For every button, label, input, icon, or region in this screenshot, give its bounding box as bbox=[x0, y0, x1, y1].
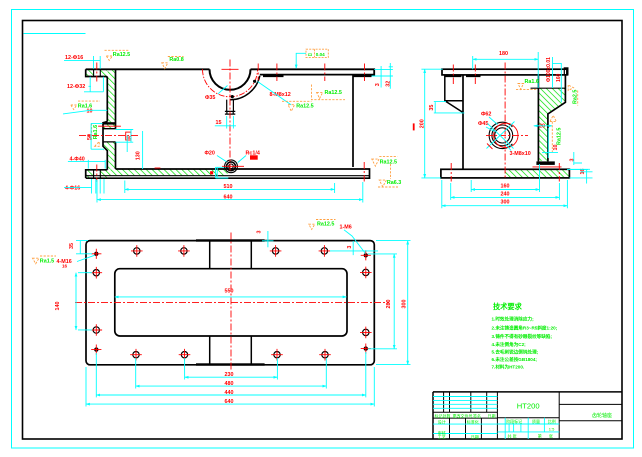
front view bore outer counterbore arc bbox=[230, 76, 260, 100]
svg-text:510: 510 bbox=[224, 184, 233, 190]
svg-text:Ra12.5: Ra12.5 bbox=[556, 128, 562, 145]
side view boss horizontal centerline bbox=[486, 134, 528, 136]
svg-text:日期: 日期 bbox=[488, 412, 496, 418]
svg-text:Ra12.5: Ra12.5 bbox=[317, 221, 334, 227]
svg-text:3: 3 bbox=[347, 246, 353, 249]
plan view bolt holes side columns bbox=[93, 269, 369, 335]
boss dia red box label bbox=[126, 132, 131, 140]
svg-text:15: 15 bbox=[216, 120, 222, 126]
side view main vertical centerline bbox=[504, 63, 506, 179]
svg-text:张: 张 bbox=[549, 432, 553, 438]
side view top flange outline bbox=[442, 69, 567, 75]
svg-text:240: 240 bbox=[501, 192, 510, 198]
svg-text:3: 3 bbox=[569, 159, 575, 162]
dim 510 bbox=[125, 188, 335, 190]
svg-text:12-Φ32: 12-Φ32 bbox=[67, 84, 85, 90]
svg-text:Φ20: Φ20 bbox=[205, 150, 215, 156]
svg-text:300: 300 bbox=[501, 200, 510, 206]
front view hatching: left wall lower bbox=[108, 150, 116, 169]
surface Ra12.5 wall rotated bbox=[550, 115, 557, 152]
svg-text:16: 16 bbox=[62, 264, 68, 269]
svg-text:140: 140 bbox=[55, 302, 61, 311]
svg-text:Ra1.5: Ra1.5 bbox=[40, 258, 54, 264]
border fold mark bbox=[24, 33, 86, 35]
title block texts bbox=[435, 402, 613, 440]
svg-text:Ra12.5: Ra12.5 bbox=[325, 90, 342, 96]
svg-text:0.04: 0.04 bbox=[316, 52, 325, 57]
title block cyan rows upper-left bbox=[433, 397, 497, 409]
svg-text:日期: 日期 bbox=[471, 433, 479, 439]
svg-text:标记处数: 标记处数 bbox=[435, 412, 451, 418]
surface symbol Ra1.6 left bbox=[71, 101, 100, 109]
svg-text:300: 300 bbox=[401, 300, 407, 309]
side view right wall inner face bbox=[537, 75, 539, 161]
plan view boss verticals bottom bbox=[210, 336, 252, 364]
front view hatching: top-left tab bbox=[86, 70, 107, 76]
svg-text:阶段标记: 阶段标记 bbox=[506, 418, 522, 424]
svg-text:比例: 比例 bbox=[548, 418, 556, 424]
drain area cyan box bbox=[216, 167, 229, 178]
svg-text:Ra2.5: Ra2.5 bbox=[572, 90, 578, 104]
svg-text:Ra6.3: Ra6.3 bbox=[387, 180, 401, 186]
surface + 4-M16 label left bbox=[33, 256, 57, 264]
plan view outer rectangle bbox=[86, 241, 374, 365]
svg-text:20: 20 bbox=[539, 123, 545, 129]
side view hatching: bottom flange right part bbox=[505, 170, 569, 178]
boss red centerline bbox=[79, 135, 140, 137]
side view top flange bolt centerlines bbox=[453, 65, 475, 85]
svg-text:齿轮轴座: 齿轮轴座 bbox=[592, 412, 612, 419]
surface Ra0.8 top plate bbox=[162, 57, 184, 69]
svg-text:2.未注铸造圆角R3~R5斜度1:20;: 2.未注铸造圆角R3~R5斜度1:20; bbox=[492, 324, 558, 331]
1-M6 label top right bbox=[309, 220, 336, 230]
plan view bolt holes top row bbox=[134, 248, 328, 254]
svg-text:550: 550 bbox=[225, 289, 234, 295]
svg-text:1-M6: 1-M6 bbox=[340, 225, 352, 231]
plan view vertical centerline bbox=[230, 233, 232, 372]
front view boss thread thick line bbox=[103, 122, 116, 124]
front view bore inner arc bbox=[210, 69, 251, 90]
surface Ra6.3 right end lower bbox=[378, 164, 398, 187]
svg-text:Φ62: Φ62 bbox=[481, 112, 491, 118]
hole centerline top tab bbox=[96, 63, 98, 82]
surface Ra12.5 near bore upper bbox=[312, 85, 346, 100]
title block cyan rows lower-left bbox=[433, 424, 497, 433]
front view bottom flange outline bbox=[86, 169, 370, 178]
title block upper-left verticals bbox=[444, 392, 487, 412]
svg-text:Ra1.6: Ra1.6 bbox=[93, 125, 99, 139]
front view left tab outline bbox=[86, 69, 108, 121]
svg-text:3-M8x10: 3-M8x10 bbox=[510, 151, 531, 157]
bottom tab centerline bbox=[96, 165, 98, 183]
svg-text:1.时效处理消除应力;: 1.时效处理消除应力; bbox=[492, 316, 535, 323]
front view cavity floor line bbox=[116, 168, 354, 170]
front view hatching: left wall upper bbox=[108, 70, 116, 123]
front view drain boss circles bbox=[229, 164, 234, 169]
side view left wall face bbox=[462, 75, 464, 169]
svg-text:3: 3 bbox=[375, 83, 381, 86]
side view wall shelf line bbox=[531, 87, 566, 89]
boss red diagonal tick bbox=[487, 144, 493, 150]
front view boss hole lines bbox=[103, 129, 116, 142]
side view bottom flange outline bbox=[441, 169, 570, 178]
svg-text:35: 35 bbox=[429, 105, 435, 111]
svg-text:更改文件号: 更改文件号 bbox=[453, 412, 473, 418]
front view outline: top edge left of bore bbox=[86, 68, 210, 70]
svg-text:10: 10 bbox=[553, 145, 559, 151]
front view left wall inner face bbox=[115, 69, 117, 169]
svg-text:35: 35 bbox=[69, 243, 75, 249]
title block cyan grid middle bbox=[497, 418, 559, 439]
front view right wall bbox=[352, 75, 354, 167]
front view bore bolt-circle red arc bbox=[203, 69, 258, 97]
title block right section horizontals bbox=[559, 404, 622, 420]
svg-text:4.未注倒角为C2;: 4.未注倒角为C2; bbox=[492, 341, 527, 348]
side view right wall outer face and chamfer bbox=[548, 75, 566, 161]
svg-text:设计: 设计 bbox=[438, 419, 446, 425]
front view bore horizontal red tick bbox=[222, 69, 245, 166]
top tab bolt hole bbox=[94, 70, 101, 76]
svg-text:技术要求: 技术要求 bbox=[493, 302, 523, 311]
svg-text:▭: ▭ bbox=[308, 52, 313, 58]
dim 130 vertical bbox=[127, 131, 142, 169]
plan view horizontal centerline bbox=[75, 302, 389, 304]
svg-text:280: 280 bbox=[386, 300, 392, 309]
svg-text:Φ100±0.01: Φ100±0.01 bbox=[546, 57, 552, 82]
svg-text:Ra12.5: Ra12.5 bbox=[296, 104, 313, 110]
front view hatching: left boss bump bbox=[103, 122, 115, 128]
side view center boss circles bbox=[495, 128, 510, 143]
front view hatching: bottom-left tab bbox=[86, 170, 107, 178]
surface symbol Ra12.5 top bbox=[105, 50, 129, 60]
title block outer black frame bbox=[433, 392, 622, 439]
side view left step block bbox=[445, 75, 463, 113]
front view hatching: bottom flange left part bbox=[98, 169, 228, 175]
svg-text:5.去毛刺锐边倒钝处理;: 5.去毛刺锐边倒钝处理; bbox=[492, 348, 539, 355]
small red mark right margin bbox=[413, 123, 415, 130]
svg-text:Ra12.5: Ra12.5 bbox=[113, 52, 130, 58]
surface Ra2.5 flange right rotated bbox=[568, 85, 578, 106]
svg-text:10: 10 bbox=[87, 109, 93, 115]
svg-text:1:5: 1:5 bbox=[549, 427, 555, 432]
svg-text:3: 3 bbox=[257, 231, 263, 234]
svg-text:640: 640 bbox=[224, 194, 233, 200]
plan view corner tapped holes (filled) bbox=[94, 252, 98, 256]
front view boss red seal line bbox=[98, 125, 121, 127]
svg-text:共 张: 共 张 bbox=[508, 432, 517, 438]
flatness tolerance frame bbox=[306, 49, 328, 57]
svg-text:签名: 签名 bbox=[473, 412, 481, 418]
bottom flange right bolt centerline bbox=[363, 162, 365, 182]
svg-text:质量: 质量 bbox=[532, 418, 540, 424]
side view red surface line above flange bbox=[533, 166, 562, 168]
title block middle divider verticals bbox=[497, 392, 559, 439]
svg-text:Ra12.5: Ra12.5 bbox=[380, 159, 397, 165]
svg-text:6.未注公差按GB1804;: 6.未注公差按GB1804; bbox=[492, 356, 538, 363]
surface Ra1.6 under flange bbox=[516, 84, 537, 90]
front view datum red tick on floor bbox=[155, 167, 161, 169]
front view flange gasket dashes bbox=[263, 75, 372, 77]
title block HT200 cell bottom bbox=[497, 417, 559, 419]
front view top-right flange bbox=[251, 69, 375, 74]
title block left-mid horizontals bbox=[433, 412, 497, 418]
dim 640 bbox=[97, 199, 363, 201]
svg-text:Ra0.8: Ra0.8 bbox=[169, 57, 183, 63]
svg-text:Φ35: Φ35 bbox=[205, 95, 215, 101]
plan view boss thick edge bottom bbox=[196, 363, 265, 365]
surface Ra12.5 near bore lower bbox=[282, 101, 312, 111]
front view left boss outline bbox=[103, 122, 107, 170]
bottom tab bolt hole bbox=[94, 170, 101, 177]
svg-text:工艺: 工艺 bbox=[438, 435, 446, 440]
side view flange gasket dashes bbox=[446, 75, 481, 77]
svg-text:180: 180 bbox=[499, 51, 508, 57]
plan view boss verticals top bbox=[210, 241, 252, 268]
front view neck slot below bore bbox=[225, 100, 235, 115]
side view top flange right lip bbox=[564, 68, 568, 75]
boss cyan hole dims bbox=[91, 123, 133, 149]
svg-text:160: 160 bbox=[501, 184, 510, 190]
svg-text:3.铸件不得有砂眼裂纹等缺陷;: 3.铸件不得有砂眼裂纹等缺陷; bbox=[492, 333, 553, 340]
front view main vertical centerline bbox=[229, 60, 231, 173]
svg-text:Φ45: Φ45 bbox=[478, 121, 488, 127]
plan view bolt holes bottom row bbox=[133, 352, 328, 358]
svg-text:HT200: HT200 bbox=[517, 402, 540, 411]
front view bottom-left tab outline bbox=[86, 170, 108, 178]
side view hatching: right wall section bbox=[539, 89, 565, 161]
top flange bolt centerlines bbox=[258, 64, 364, 82]
svg-text:4-Φ16: 4-Φ16 bbox=[65, 185, 80, 191]
svg-text:130: 130 bbox=[136, 151, 142, 160]
plan view hole red crosses bbox=[91, 245, 372, 360]
side view bolt circle red bbox=[494, 123, 518, 147]
svg-text:标准化: 标准化 bbox=[467, 419, 479, 425]
plan view boss thick edge top bbox=[196, 239, 265, 241]
svg-text:第: 第 bbox=[538, 432, 542, 438]
title block lower-left verticals bbox=[450, 418, 482, 439]
side view bottom flange bolt centerlines bbox=[451, 163, 559, 182]
surface Ra12.5 right end bbox=[372, 157, 398, 167]
svg-text:7.材料为HT200.: 7.材料为HT200. bbox=[492, 364, 525, 371]
side view wall bottom step bar bbox=[536, 161, 554, 165]
plan view inner rectangle bbox=[115, 269, 347, 336]
svg-text:Ra1.6: Ra1.6 bbox=[525, 79, 539, 85]
